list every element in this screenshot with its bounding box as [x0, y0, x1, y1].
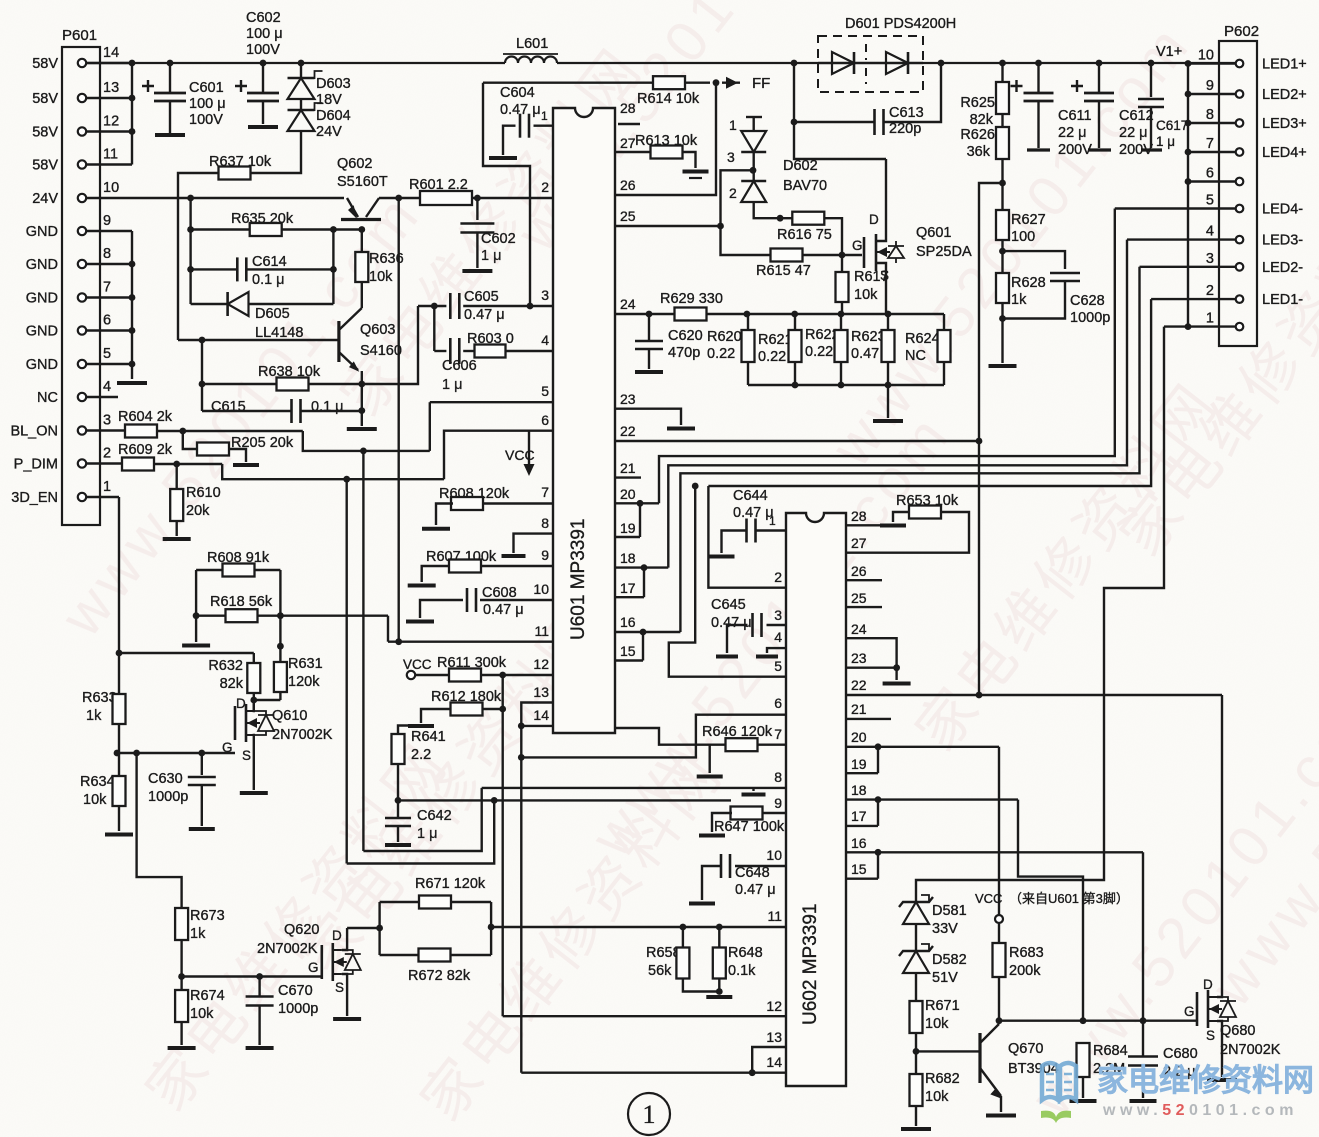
wire U602 pin18/17 pair to R684 node — [846, 798, 1018, 800]
svg-text:28: 28 — [620, 100, 636, 116]
svg-text:470p: 470p — [668, 345, 700, 361]
svg-text:0.47 μ: 0.47 μ — [711, 615, 752, 631]
svg-text:1: 1 — [643, 1100, 656, 1129]
svg-text:26: 26 — [620, 177, 636, 193]
svg-text:0.1 μ: 0.1 μ — [252, 272, 285, 288]
svg-text:4: 4 — [1206, 224, 1214, 240]
P602 pin 4 LED3- — [1236, 236, 1244, 244]
svg-text:10: 10 — [533, 581, 549, 597]
svg-text:U601 MP3391: U601 MP3391 — [568, 519, 589, 640]
wire U601 pin26 to FF net — [615, 83, 716, 195]
resistor R625 82k — [999, 60, 1006, 67]
capacitor C611 22u 200V — [1035, 60, 1042, 67]
svg-text:R610: R610 — [186, 485, 221, 501]
svg-text:5: 5 — [103, 346, 111, 362]
svg-text:Q603: Q603 — [360, 322, 395, 338]
svg-text:1 μ: 1 μ — [442, 377, 462, 393]
svg-text:18: 18 — [851, 782, 867, 798]
svg-text:NC: NC — [37, 390, 58, 406]
svg-text:R627: R627 — [1011, 212, 1046, 228]
svg-text:7: 7 — [1206, 136, 1214, 152]
wire Q603 base — [178, 339, 339, 341]
wire U601 pin20/19 pair — [615, 502, 659, 504]
wire 3D_EN/P_DIM branch down — [346, 479, 348, 863]
svg-text:D601 PDS4200H: D601 PDS4200H — [845, 16, 956, 32]
svg-text:2: 2 — [1206, 283, 1214, 299]
wire C613 node to Q601 drain — [794, 122, 886, 159]
svg-text:Q610: Q610 — [272, 708, 307, 724]
svg-text:22: 22 — [620, 423, 636, 439]
svg-text:12: 12 — [533, 656, 549, 672]
P602 pin 7 LED4+ — [1236, 148, 1244, 156]
wire U601 pin22 long row — [615, 440, 979, 442]
P601 pin 4 NC stub — [86, 396, 118, 398]
svg-text:L601: L601 — [516, 36, 548, 52]
wire U601 pin5 to BL_ON net — [430, 401, 553, 403]
svg-text:100: 100 — [1011, 229, 1035, 245]
wire VCC to R614 row — [483, 81, 710, 83]
svg-text:36k: 36k — [967, 144, 991, 160]
resistor R621 0.22 — [791, 311, 798, 318]
svg-text:LED2+: LED2+ — [1262, 87, 1307, 103]
svg-text:58V: 58V — [32, 125, 58, 141]
svg-text:C617: C617 — [1156, 118, 1188, 133]
svg-text:20: 20 — [620, 486, 636, 502]
svg-text:16: 16 — [851, 835, 867, 851]
svg-text:C601: C601 — [189, 80, 224, 96]
svg-text:GND: GND — [26, 257, 58, 273]
IC U601 MP3391 — [553, 108, 615, 733]
wire R631 top bracket — [279, 570, 281, 700]
P602 pin 5 LED4- — [1236, 205, 1244, 213]
svg-text:GND: GND — [26, 291, 58, 307]
svg-text:1k: 1k — [86, 708, 102, 724]
svg-text:20k: 20k — [186, 503, 210, 519]
svg-text:LED2-: LED2- — [1262, 260, 1303, 276]
svg-text:4: 4 — [541, 332, 549, 348]
svg-text:C614: C614 — [252, 254, 287, 270]
svg-text:8: 8 — [541, 515, 549, 531]
svg-text:16: 16 — [620, 614, 636, 630]
wire Q680 gate row — [999, 1020, 1197, 1022]
svg-text:1: 1 — [103, 479, 111, 495]
svg-text:C628: C628 — [1070, 293, 1105, 309]
wire P602 pin1 V1+ row — [1164, 325, 1235, 327]
svg-text:R609 2k: R609 2k — [118, 442, 173, 458]
svg-text:12: 12 — [766, 998, 782, 1014]
svg-text:S: S — [1206, 1028, 1215, 1043]
svg-text:1: 1 — [541, 109, 548, 123]
svg-text:100 μ: 100 μ — [246, 26, 283, 42]
svg-text:14: 14 — [533, 707, 549, 723]
wire U602 pin16/15 pair to C680 node — [846, 851, 1143, 853]
svg-text:2N7002K: 2N7002K — [272, 727, 333, 743]
wire U601 pin24 row — [615, 313, 944, 315]
svg-text:C630: C630 — [148, 771, 183, 787]
svg-text:R647 100k: R647 100k — [714, 819, 785, 835]
svg-text:V1+: V1+ — [1156, 44, 1182, 60]
svg-text:9: 9 — [774, 795, 782, 811]
svg-text:26: 26 — [851, 563, 867, 579]
svg-text:D605: D605 — [255, 306, 290, 322]
wire U602 pin5 tap — [692, 483, 699, 490]
wire U602 pin20/19 pair to VCC terminal — [846, 746, 999, 748]
svg-text:2N7002K: 2N7002K — [257, 941, 318, 957]
svg-text:R614 10k: R614 10k — [637, 91, 700, 107]
svg-text:14: 14 — [766, 1054, 782, 1070]
svg-text:9: 9 — [103, 213, 111, 229]
svg-text:27: 27 — [620, 135, 636, 151]
svg-text:10: 10 — [103, 180, 119, 196]
wire pin13/14 net down to U602 pin14 — [520, 726, 522, 1073]
wire R671/R672 right node to U602 pin11 — [490, 902, 492, 955]
svg-text:R671 120k: R671 120k — [415, 876, 486, 892]
svg-text:24V: 24V — [32, 191, 58, 207]
svg-text:7: 7 — [774, 726, 782, 742]
svg-text:C620: C620 — [668, 328, 703, 344]
zener D603 18V — [298, 60, 305, 67]
P602 pin 6 — [1236, 178, 1244, 186]
wire U601 pin8 to ground — [514, 534, 554, 553]
svg-text:0.22: 0.22 — [805, 344, 833, 360]
svg-text:0.47 μ: 0.47 μ — [735, 882, 776, 898]
svg-text:100V: 100V — [189, 112, 223, 128]
svg-text:5: 5 — [774, 658, 782, 674]
svg-text:Q680: Q680 — [1220, 1023, 1255, 1039]
P602 pin 10 LED1+ — [1236, 60, 1244, 68]
svg-text:1k: 1k — [1011, 292, 1027, 308]
wire U602 pin26 stub — [846, 579, 882, 581]
svg-text:R683: R683 — [1009, 945, 1044, 961]
svg-text:www.520101.com: www.520101.com — [1102, 1102, 1298, 1119]
svg-text:10: 10 — [1198, 48, 1214, 64]
svg-text:3: 3 — [774, 607, 782, 623]
wire R632 top to R633 node — [119, 652, 254, 654]
wire U601 pin18/17 pair — [615, 566, 668, 568]
wire U601 pin14 row — [521, 725, 553, 727]
wire sense bottom bus to ground — [748, 384, 944, 386]
resistor R623 0.47 — [885, 311, 892, 318]
svg-text:23: 23 — [620, 391, 636, 407]
svg-text:BL_ON: BL_ON — [10, 424, 58, 440]
svg-text:1: 1 — [729, 117, 737, 133]
svg-text:100 μ: 100 μ — [189, 96, 226, 112]
svg-text:24: 24 — [851, 621, 867, 637]
capacitor C602 100u 100V (top) — [260, 60, 267, 67]
svg-text:6: 6 — [774, 695, 782, 711]
wire U602 pin24/23 to ground — [846, 638, 897, 680]
svg-text:R620: R620 — [707, 329, 742, 345]
capacitor C617 1u — [1148, 60, 1155, 67]
wire U601 pin16/15 pair — [615, 631, 680, 633]
svg-text:LED4-: LED4- — [1262, 202, 1303, 218]
svg-text:D603: D603 — [316, 76, 351, 92]
svg-text:R632: R632 — [208, 658, 243, 674]
svg-text:Q601: Q601 — [916, 225, 951, 241]
svg-text:0.1k: 0.1k — [728, 963, 756, 979]
wire Q602-collector node vertical — [398, 198, 400, 642]
capacitor C601 100u 100V — [167, 60, 174, 67]
svg-text:C644: C644 — [733, 488, 768, 504]
svg-text:5: 5 — [1206, 193, 1214, 209]
capacitor C614 0.1u — [187, 266, 194, 273]
svg-text:22 μ: 22 μ — [1058, 125, 1087, 141]
wire 58V / V1+ main bus — [86, 62, 505, 64]
svg-text:G: G — [308, 960, 319, 975]
svg-text:1000p: 1000p — [1070, 310, 1110, 326]
svg-text:VCC （来自U601 第3脚）: VCC （来自U601 第3脚） — [975, 891, 1129, 906]
svg-text:17: 17 — [851, 808, 867, 824]
svg-text:D602: D602 — [783, 158, 818, 174]
svg-text:C602: C602 — [246, 10, 281, 26]
wire VCC net to U601 pin3 — [483, 83, 530, 306]
svg-text:R634: R634 — [80, 774, 115, 790]
svg-text:S: S — [242, 748, 251, 763]
svg-text:S5160T: S5160T — [337, 174, 388, 190]
svg-text:25: 25 — [851, 590, 867, 606]
diode D605 LL4148 — [191, 303, 228, 305]
svg-text:11: 11 — [767, 908, 782, 924]
wire 24V to base network — [189, 198, 191, 304]
svg-text:0.1 μ: 0.1 μ — [311, 399, 344, 415]
svg-text:R628: R628 — [1011, 275, 1046, 291]
svg-text:R615 47: R615 47 — [756, 263, 811, 279]
svg-text:3: 3 — [103, 413, 111, 429]
svg-text:12: 12 — [103, 114, 119, 130]
svg-text:家电维修资料网: 家电维修资料网 — [1097, 1063, 1314, 1098]
svg-text:17: 17 — [620, 580, 636, 596]
svg-text:R624: R624 — [905, 331, 940, 347]
wire BL_ON branch down — [362, 451, 364, 851]
svg-text:G: G — [852, 238, 863, 253]
svg-text:R629 330: R629 330 — [660, 291, 723, 307]
svg-text:C670: C670 — [278, 983, 313, 999]
wire staircase to C642 node — [347, 800, 495, 863]
zener D604 24V — [300, 99, 302, 110]
svg-text:58V: 58V — [32, 158, 58, 174]
svg-text:G: G — [1184, 1004, 1195, 1019]
svg-text:R673: R673 — [190, 908, 225, 924]
svg-text:5: 5 — [541, 383, 549, 399]
svg-text:100V: 100V — [246, 42, 280, 58]
svg-text:27: 27 — [851, 535, 867, 551]
svg-text:18: 18 — [620, 550, 636, 566]
svg-text:0.22: 0.22 — [758, 349, 786, 365]
svg-text:25: 25 — [620, 208, 636, 224]
svg-text:0.47 μ: 0.47 μ — [483, 602, 524, 618]
svg-text:D604: D604 — [316, 108, 351, 124]
wire U602 pin11 row — [491, 926, 786, 928]
wire pin12 net down to U602 pin12 — [502, 675, 504, 1016]
svg-text:58V: 58V — [32, 91, 58, 107]
capacitor C602 1u (lower) — [476, 198, 478, 220]
svg-text:10k: 10k — [190, 1006, 214, 1022]
svg-text:220p: 220p — [889, 121, 921, 137]
svg-text:21: 21 — [620, 460, 636, 476]
svg-text:NC: NC — [905, 348, 926, 364]
svg-text:4: 4 — [774, 629, 782, 645]
svg-text:51V: 51V — [932, 970, 958, 986]
svg-text:23: 23 — [851, 650, 867, 666]
svg-text:28: 28 — [851, 508, 867, 524]
svg-text:2.2: 2.2 — [411, 747, 431, 763]
svg-text:C615: C615 — [211, 399, 246, 415]
svg-text:C645: C645 — [711, 597, 746, 613]
svg-text:GND: GND — [26, 357, 58, 373]
svg-text:8: 8 — [1206, 107, 1214, 123]
svg-text:BAV70: BAV70 — [783, 178, 827, 194]
wire R632/R631 bottoms to Q610 drain — [254, 699, 281, 701]
svg-text:21: 21 — [851, 701, 867, 717]
P602 pin 3 LED2- — [1236, 263, 1244, 271]
ground P601 GND pins — [117, 381, 147, 385]
wire U601 pin6 to P_DIM net — [444, 431, 553, 480]
svg-text:R671: R671 — [925, 998, 960, 1014]
svg-text:C605: C605 — [464, 289, 499, 305]
svg-text:C613: C613 — [889, 105, 924, 121]
svg-text:82k: 82k — [970, 112, 994, 128]
svg-text:0.47: 0.47 — [851, 346, 879, 362]
wire Q603 emitter node — [361, 371, 363, 426]
svg-text:D: D — [1203, 977, 1213, 992]
svg-text:LED3+: LED3+ — [1262, 116, 1307, 132]
svg-text:33V: 33V — [932, 921, 958, 937]
wire net D (U602 pin2) to P602 pin2 — [708, 299, 1151, 486]
wire pin3 net to R638 row — [362, 306, 418, 384]
svg-text:19: 19 — [620, 520, 636, 536]
wire right bracket R635/C614/D605 — [332, 230, 334, 305]
svg-text:R682: R682 — [925, 1071, 960, 1087]
svg-text:R618 56k: R618 56k — [210, 594, 273, 610]
wire U602 pin21 stub — [846, 718, 891, 720]
wire D601 branch / C613 node — [791, 60, 798, 67]
wire Q620 gate row — [182, 975, 322, 977]
wire U601 bottom-right zigzag to U602 pin7 — [615, 728, 700, 745]
svg-text:GND: GND — [26, 324, 58, 340]
svg-text:Q620: Q620 — [284, 922, 319, 938]
svg-text:3: 3 — [727, 149, 735, 165]
wire U602 pin13 bracket — [752, 1047, 786, 1073]
svg-text:U602 MP3391: U602 MP3391 — [800, 904, 821, 1025]
svg-text:D: D — [869, 212, 879, 227]
wire BL_ON jog to U601 pin5 — [303, 431, 430, 451]
P602 pin 8 LED3+ — [1236, 119, 1244, 127]
wire P602 LED- rows — [1115, 207, 1235, 209]
wire U602 pin4 to ground — [767, 648, 786, 653]
svg-text:0.22: 0.22 — [707, 346, 735, 362]
svg-text:P602: P602 — [1224, 23, 1259, 40]
svg-text:19: 19 — [851, 756, 867, 772]
svg-text:R616 75: R616 75 — [777, 227, 832, 243]
resistor R622 0.22 — [838, 311, 845, 318]
svg-text:P_DIM: P_DIM — [14, 457, 58, 473]
wire U601 pin13/14 bracket — [521, 703, 553, 726]
svg-text:C608: C608 — [482, 585, 517, 601]
IC U602 MP3391 — [786, 513, 846, 1086]
svg-text:GND: GND — [26, 224, 58, 240]
svg-text:18V: 18V — [316, 92, 342, 108]
svg-text:C611: C611 — [1058, 108, 1092, 124]
svg-text:6: 6 — [103, 313, 111, 329]
svg-text:1 μ: 1 μ — [1156, 134, 1175, 149]
svg-text:7: 7 — [541, 484, 549, 500]
svg-text:11: 11 — [103, 147, 118, 163]
svg-text:LED4+: LED4+ — [1262, 145, 1307, 161]
svg-text:S: S — [335, 980, 344, 995]
svg-text:3: 3 — [541, 287, 549, 303]
svg-text:10: 10 — [766, 847, 782, 863]
svg-text:VCC: VCC — [403, 657, 432, 672]
wire C642 node to U602 pin9 — [398, 799, 731, 801]
svg-text:1 μ: 1 μ — [417, 826, 437, 842]
svg-text:13: 13 — [766, 1029, 782, 1045]
wire U601 pin25 to D602 node — [615, 225, 721, 227]
svg-text:1 μ: 1 μ — [481, 248, 501, 264]
svg-text:C612: C612 — [1119, 108, 1154, 124]
svg-text:10k: 10k — [369, 269, 393, 285]
svg-text:3: 3 — [1206, 251, 1214, 267]
node R637/24V junction — [187, 195, 194, 202]
resistor R620 0.22 — [744, 311, 751, 318]
svg-text:15: 15 — [620, 643, 636, 659]
wire U602 pin22 row to Q680 drain — [846, 694, 1222, 696]
wire 3D_EN row — [86, 496, 119, 498]
svg-text:R648: R648 — [728, 945, 763, 961]
wire net C to P602 pin3 — [680, 267, 1139, 632]
svg-text:FF: FF — [752, 75, 770, 92]
wire P601 pins 14-11 to 58V bus — [86, 62, 132, 64]
svg-text:C602: C602 — [481, 231, 516, 247]
svg-text:7: 7 — [103, 280, 111, 296]
svg-text:6: 6 — [541, 412, 549, 428]
wire gate node to R673 — [137, 753, 182, 908]
svg-text:2: 2 — [541, 179, 549, 195]
svg-text:9: 9 — [1206, 78, 1214, 94]
svg-text:D: D — [236, 696, 246, 711]
svg-text:D582: D582 — [932, 952, 967, 968]
wire net A to P602 pin5 — [659, 209, 1115, 504]
svg-text:10k: 10k — [854, 287, 878, 303]
wire Q610 gate row — [117, 752, 235, 754]
connector P602 — [1219, 41, 1257, 346]
P602 pin 9 LED2+ — [1236, 90, 1244, 98]
svg-text:Q602: Q602 — [337, 156, 372, 172]
svg-text:6: 6 — [1206, 166, 1214, 182]
svg-text:200V: 200V — [1058, 142, 1092, 158]
wire net B to P602 pin4 — [668, 240, 1127, 568]
svg-text:24V: 24V — [316, 124, 342, 140]
svg-text:14: 14 — [103, 45, 119, 61]
svg-text:LED1-: LED1- — [1262, 292, 1303, 308]
wire U601 pin23 to ground — [615, 409, 681, 425]
svg-text:R674: R674 — [190, 988, 225, 1004]
wire staircase to U602 pin8 — [363, 788, 481, 851]
svg-text:8: 8 — [103, 246, 111, 262]
wire U601 pin21 stub — [615, 476, 641, 478]
svg-text:9: 9 — [541, 547, 549, 563]
svg-text:1: 1 — [1206, 311, 1214, 327]
FF arrow — [722, 81, 740, 83]
svg-text:10k: 10k — [925, 1016, 949, 1032]
svg-text:58V: 58V — [32, 56, 58, 72]
svg-text:R631: R631 — [288, 656, 323, 672]
svg-text:C604: C604 — [500, 85, 535, 101]
svg-text:D581: D581 — [932, 903, 967, 919]
wire C605 to C606 bracket — [433, 306, 435, 351]
wire U601 pin28 stub — [618, 123, 640, 125]
svg-text:200k: 200k — [1009, 963, 1041, 979]
wire U601 pin11 row — [388, 641, 553, 643]
